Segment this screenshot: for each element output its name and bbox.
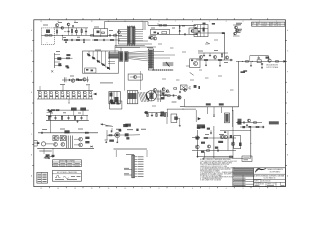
svg-text:149-10: 149-10	[263, 23, 267, 25]
svg-text:NOTES: UNLESS OTHERWISE SPECIF: NOTES: UNLESS OTHERWISE SPECIFIED	[200, 159, 232, 161]
svg-text:14: 14	[57, 188, 59, 190]
svg-text:12: 12	[91, 21, 93, 23]
svg-text:12: 12	[91, 188, 93, 190]
svg-text:5: 5	[209, 21, 210, 23]
svg-text:4: 4	[226, 21, 227, 23]
svg-text:B: B	[287, 155, 288, 157]
svg-text:9: 9	[142, 188, 143, 190]
svg-text:F: F	[287, 71, 288, 73]
svg-text:15: 15	[40, 21, 42, 23]
svg-text:T: T	[47, 43, 48, 45]
svg-text:7: 7	[175, 188, 176, 190]
svg-text:8-6-62: 8-6-62	[263, 25, 267, 27]
svg-text:15: 15	[40, 188, 42, 190]
svg-text:6: 6	[192, 188, 193, 190]
svg-text:NO: NO	[252, 23, 254, 25]
svg-text:9-62: 9-62	[270, 25, 273, 27]
svg-text:7: 7	[175, 21, 176, 23]
svg-text:SHEET 1 OF 1: SHEET 1 OF 1	[267, 183, 276, 185]
svg-text:4: 4	[226, 188, 227, 190]
svg-text:8: 8	[158, 188, 159, 190]
svg-text:8: 8	[158, 21, 159, 23]
svg-text:NONE: NONE	[260, 183, 264, 185]
svg-text:B: B	[31, 155, 32, 157]
svg-text:F: F	[31, 71, 32, 73]
svg-text:6: 6	[192, 21, 193, 23]
svg-text:3: 3	[242, 21, 243, 23]
svg-text:13: 13	[74, 188, 76, 190]
svg-text:2: 2	[259, 188, 260, 190]
svg-text:11: 11	[108, 188, 110, 190]
svg-text:10: 10	[124, 188, 126, 190]
svg-text:1: 1	[276, 188, 277, 190]
svg-text:REV: REV	[257, 23, 260, 25]
svg-text:E: E	[31, 92, 32, 94]
svg-text:E: E	[287, 92, 288, 94]
svg-text:5: 5	[209, 188, 210, 190]
svg-text:3: 3	[242, 188, 243, 190]
